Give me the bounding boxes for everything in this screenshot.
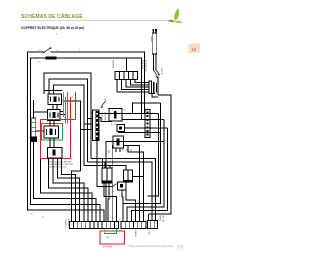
svg-text:Trilogy Nucleus Technical and: Trilogy Nucleus Technical and Design Gui…	[128, 245, 174, 248]
svg-text:CONN 6P: CONN 6P	[101, 112, 103, 121]
svg-text:76: 76	[177, 245, 184, 252]
wire CS1 staircase below RB2	[99, 118, 112, 122]
wire under bars	[149, 94, 158, 98]
wire CB1 to K3	[36, 130, 44, 132]
red wire drop	[75, 92, 77, 120]
mid bus3	[84, 166, 126, 171]
wire fan f2	[49, 79, 95, 162]
svg-text:GND: GND	[148, 231, 150, 236]
wire fan f4 to strip c1	[72, 171, 81, 222]
svg-text:NEUTRE: NEUTRE	[162, 215, 164, 223]
wire bus RB2 right through CS2	[122, 113, 159, 115]
connector strip CS1	[93, 110, 100, 141]
mid bus2	[88, 162, 153, 214]
wire K3-K4 links	[50, 138, 54, 148]
svg-text:SCHÉMAS DE CÂBLAGE: SCHÉMAS DE CÂBLAGE	[21, 12, 83, 20]
svg-text:1: 1	[72, 96, 74, 99]
wire BK2 right stub	[133, 176, 144, 178]
arrow junction	[153, 70, 159, 76]
right drop s2	[127, 120, 164, 222]
svg-text:TB: TB	[106, 237, 109, 240]
relay K2	[48, 110, 61, 121]
rotated net labels	[64, 36, 164, 238]
svg-text:ALIMENTATION 240V: ALIMENTATION 240V	[49, 166, 68, 169]
wire L2 inner supply	[31, 58, 142, 222]
wire fan TC right	[117, 80, 149, 92]
box B4	[118, 182, 127, 190]
svg-text:2x: 2x	[39, 50, 41, 52]
svg-text:K2: K2	[124, 110, 126, 112]
wire CS1 bottom long	[97, 141, 113, 187]
svg-text:SORTIE: SORTIE	[160, 68, 162, 75]
magenta wire	[63, 92, 65, 117]
block BK1	[102, 168, 112, 183]
svg-text:b: b	[86, 169, 87, 171]
right drop s4	[148, 114, 159, 197]
wire K4 drop c3	[58, 158, 80, 222]
logo leaf	[168, 9, 183, 24]
connector CB1 left inline	[32, 118, 36, 137]
wire B4 bottom	[122, 190, 123, 222]
svg-text:51: 51	[42, 217, 44, 219]
right bus loop	[157, 77, 159, 96]
top connector TC	[115, 72, 138, 80]
svg-text:A1: A1	[121, 149, 124, 151]
arrow to B4	[113, 184, 117, 187]
terminal strip TS2	[121, 222, 146, 229]
mid bus1	[91, 159, 156, 215]
wire K4 drop c1	[49, 158, 88, 222]
wire RB3 bottom pins	[116, 148, 120, 152]
svg-text:COMMUN: COMMUN	[64, 219, 66, 228]
wire fan R1 to CS1 f1	[44, 73, 95, 159]
relay K3	[44, 126, 59, 138]
relay RB2	[109, 109, 122, 122]
svg-text:ENTREE 1PH: ENTREE 1PH	[144, 60, 146, 72]
connector CS2 pins	[146, 112, 148, 136]
terminal block TB3	[148, 221, 158, 229]
right drop s1	[123, 103, 160, 222]
component value labels	[26, 34, 127, 249]
svg-text:BORNES: BORNES	[67, 219, 69, 227]
svg-text:NO: NO	[110, 123, 112, 126]
svg-text:F2: F2	[39, 62, 41, 64]
green ground wire U	[104, 229, 116, 234]
wire BK2 bottom exit	[126, 182, 135, 222]
svg-text:a: a	[113, 191, 114, 193]
svg-text:1PH/3W: 1PH/3W	[103, 246, 113, 249]
svg-text:10: 10	[192, 47, 197, 52]
wire left feed to K2	[34, 111, 48, 113]
svg-text:CABLE: CABLE	[150, 36, 153, 43]
side tab 10	[189, 44, 201, 54]
wire K4 stub to strip c2	[62, 159, 76, 222]
heavy bus through RB2	[99, 113, 145, 115]
heavy bus through RB3	[106, 141, 164, 143]
terminal strip TS1	[70, 222, 119, 229]
svg-text:MASSE: MASSE	[134, 231, 137, 238]
switch S1 blade	[44, 48, 51, 53]
svg-text:4: 4	[57, 50, 58, 52]
wire K2-K3 links	[50, 121, 54, 127]
wire RB3 right drops	[124, 146, 144, 222]
svg-text:ALIM: ALIM	[26, 97, 29, 102]
red wire drop 2	[70, 97, 72, 120]
wire A red-box left drop	[41, 159, 92, 222]
relay K1	[48, 94, 62, 105]
wire L3 third rail	[34, 100, 97, 222]
svg-text:REL: REL	[107, 150, 109, 154]
wire bus y132.5 through CS2	[118, 132, 161, 134]
red bottom box	[100, 231, 125, 244]
svg-text:1: 1	[79, 50, 80, 52]
wire K2 right stubs	[60, 112, 66, 115]
wire bus over K1	[45, 90, 63, 92]
connector CB1 foot	[31, 137, 37, 143]
svg-text:BORNIER: BORNIER	[112, 60, 114, 69]
relay RB3	[113, 136, 124, 148]
relay K4	[48, 148, 63, 159]
green wire 1	[65, 97, 67, 124]
green enclosure box	[42, 124, 63, 141]
green wire 2	[67, 92, 69, 124]
wire K1-K2 links	[53, 105, 57, 110]
svg-text:TERRE: TERRE	[159, 215, 161, 222]
slim bars SB	[149, 81, 152, 94]
wire mid corner h103	[133, 103, 161, 114]
block BK2	[124, 170, 133, 182]
wire L1 outer supply with switch	[28, 52, 145, 222]
right drop s3	[131, 128, 167, 222]
svg-text:K3: K3	[125, 149, 127, 151]
wire RB3 left links	[106, 142, 113, 222]
red enclosure box	[41, 120, 76, 159]
svg-text:NC: NC	[113, 123, 115, 126]
wire K4 drop c2	[53, 158, 84, 222]
small box B3	[117, 125, 125, 132]
arrow into CS1	[102, 101, 107, 106]
svg-text:1: 1	[56, 34, 58, 36]
header rule	[21, 20, 172, 22]
wire fan f3	[54, 85, 96, 166]
svg-text:J1: J1	[104, 99, 106, 101]
cable entry C top right	[153, 30, 156, 71]
fuse F1	[46, 57, 57, 60]
svg-text:COFFRET ÉLECTRIQUE (30, 36 et: COFFRET ÉLECTRIQUE (30, 36 et 42 po)	[21, 25, 84, 30]
svg-text:50: 50	[31, 214, 33, 216]
wire fan f4	[63, 101, 96, 171]
wire stub frame to TC	[126, 58, 128, 72]
wire RB2 lower and B3 buses through CS2	[122, 120, 168, 129]
svg-text:ALIM 240V: ALIM 240V	[141, 60, 144, 70]
connector strip CS2 body	[145, 110, 150, 138]
svg-text:FAISCEAU: FAISCEAU	[103, 112, 106, 122]
block3 pins	[149, 214, 156, 221]
wire BK1 bottom exits	[104, 183, 116, 222]
